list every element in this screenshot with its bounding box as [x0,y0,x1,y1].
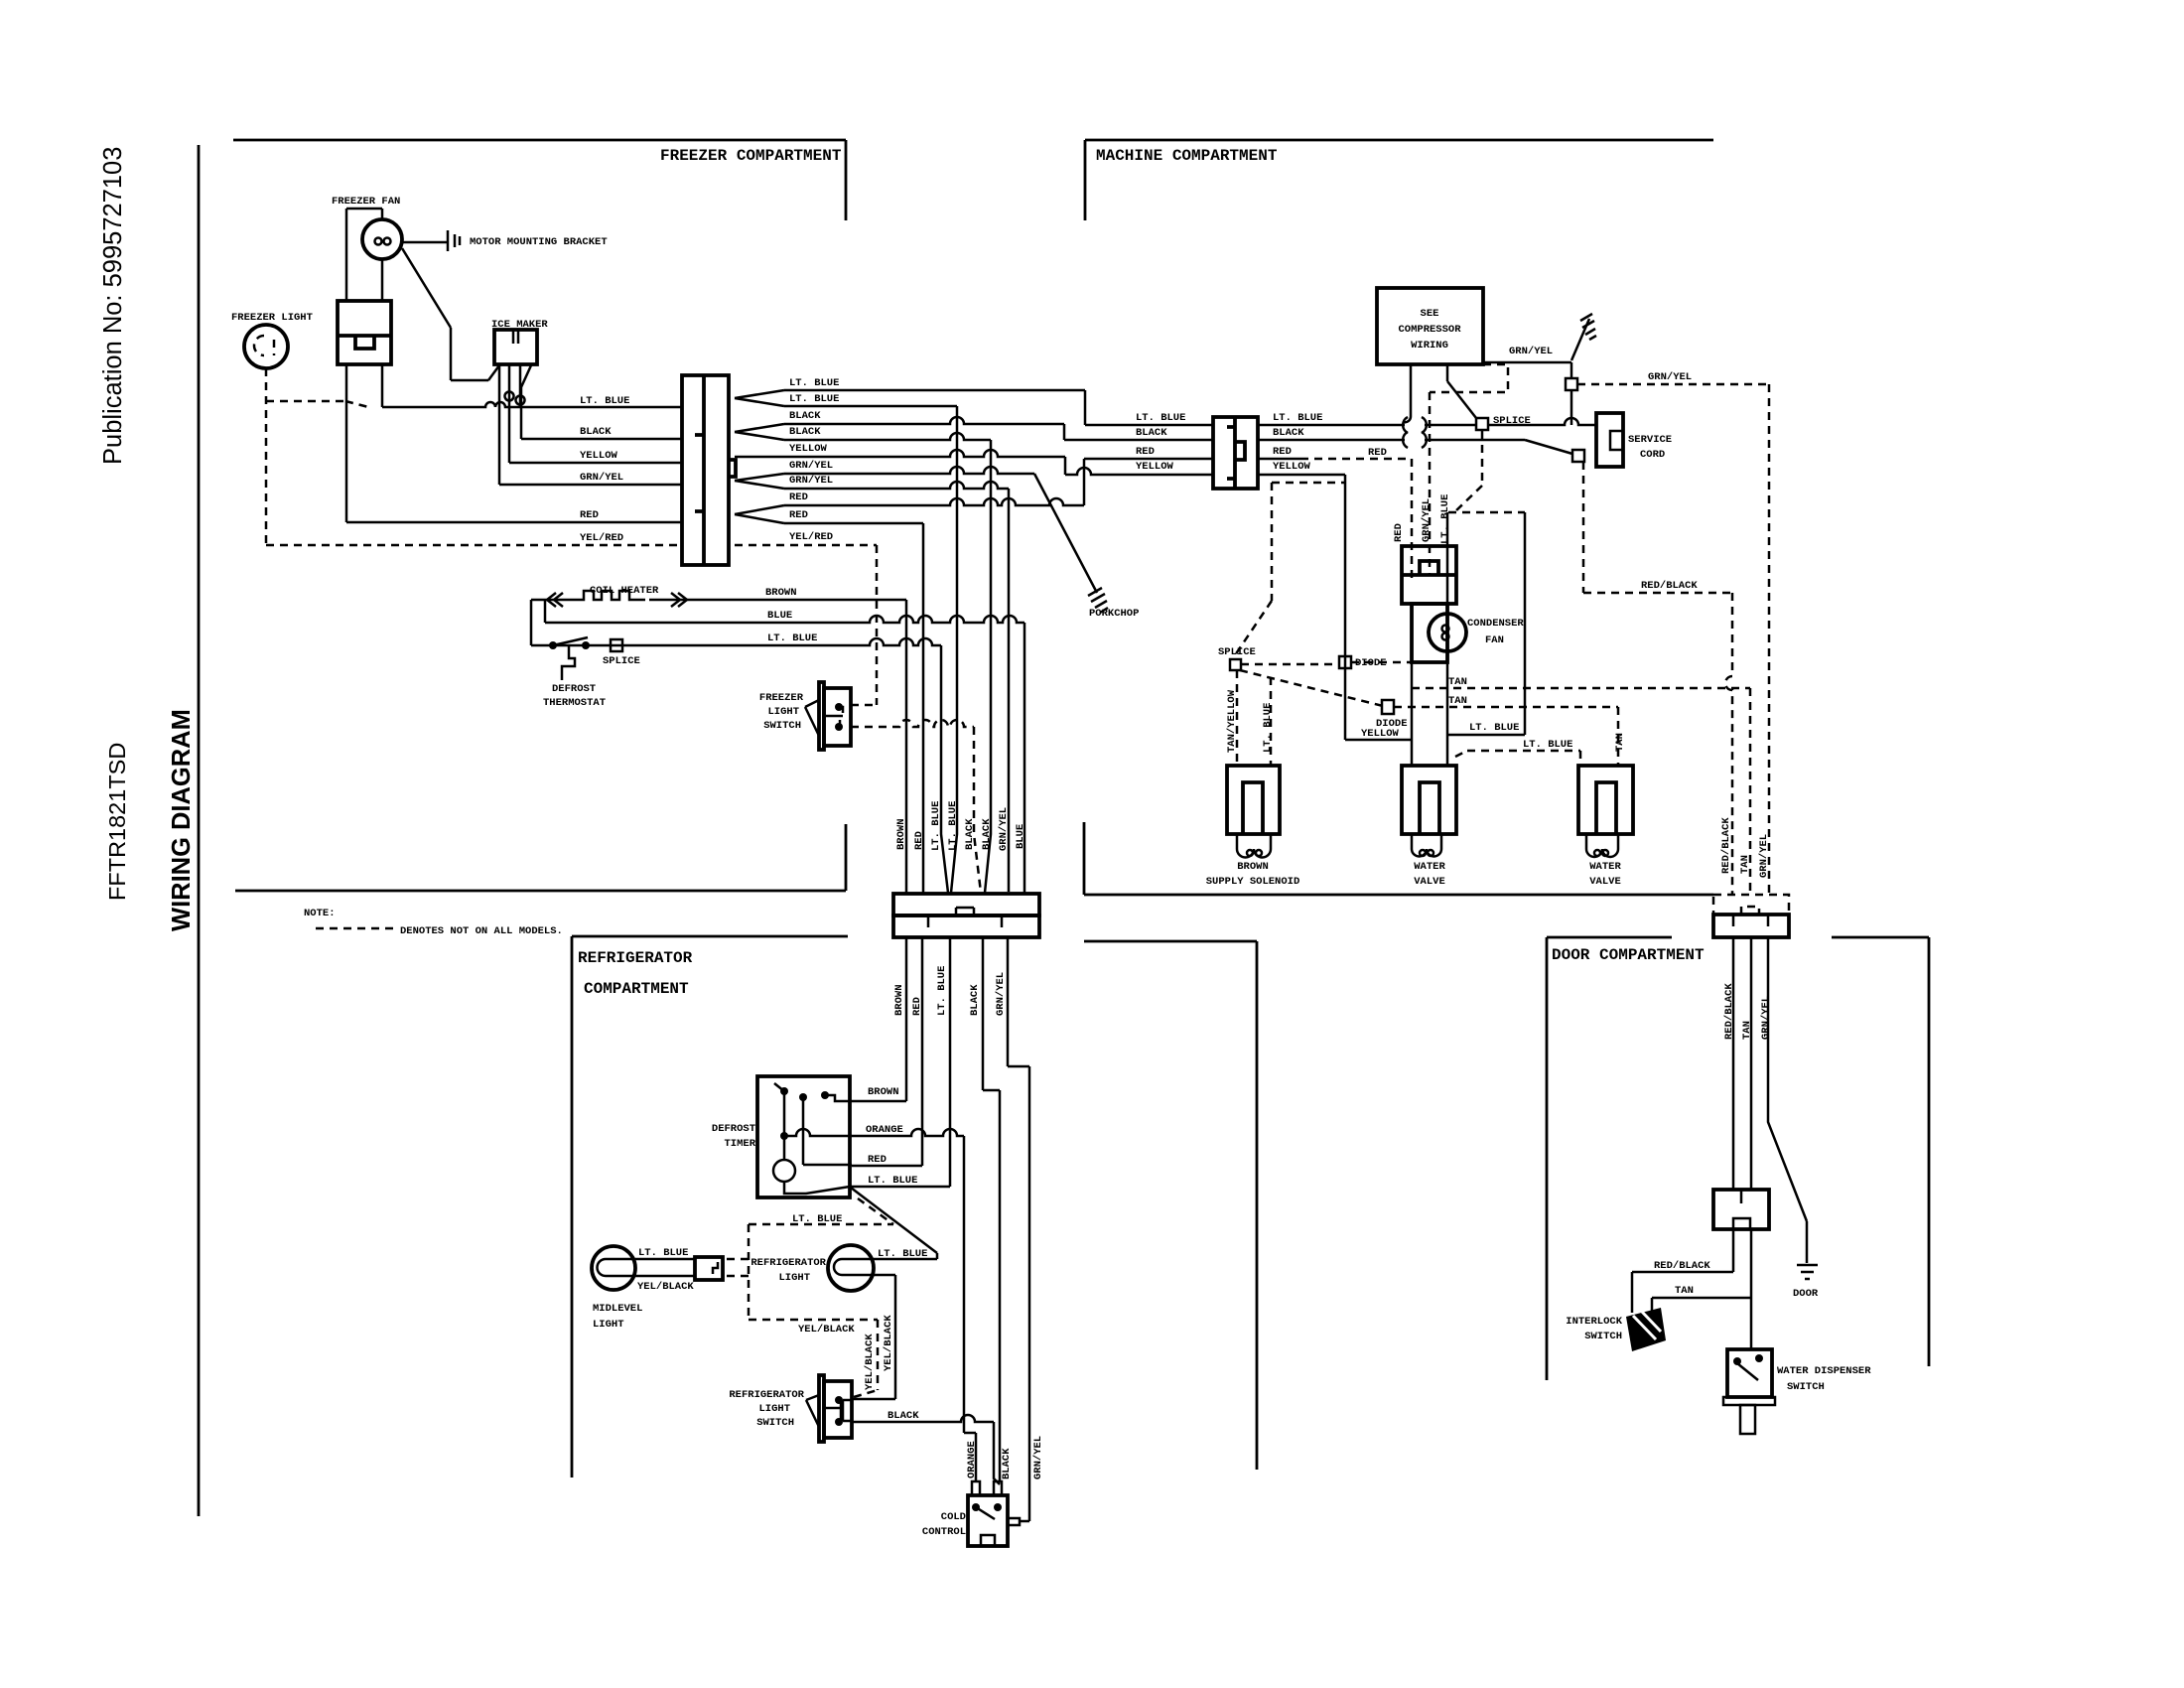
svg-text:YELLOW: YELLOW [1136,461,1174,473]
svg-text:VALVE: VALVE [1414,876,1445,888]
svg-text:PORKCHOP: PORKCHOP [1089,608,1139,620]
svg-text:WATER DISPENSER: WATER DISPENSER [1777,1365,1871,1377]
svg-text:NOTE:: NOTE: [304,908,336,919]
svg-text:RED/BLACK: RED/BLACK [1641,580,1698,592]
svg-text:FREEZER: FREEZER [759,692,804,704]
svg-text:MACHINE COMPARTMENT: MACHINE COMPARTMENT [1096,147,1278,165]
svg-text:BLACK: BLACK [1136,427,1167,439]
svg-text:LIGHT: LIGHT [778,1272,810,1284]
svg-text:DIODE: DIODE [1376,718,1408,730]
svg-text:SPLICE: SPLICE [1218,646,1256,658]
svg-text:BLACK: BLACK [964,818,976,850]
svg-text:LT. BLUE: LT. BLUE [1469,722,1519,734]
svg-text:COLD: COLD [941,1511,966,1523]
svg-text:FREEZER FAN: FREEZER FAN [332,196,400,208]
svg-text:RED: RED [1368,447,1387,459]
svg-text:RED/BLACK: RED/BLACK [1723,983,1735,1040]
svg-text:WATER: WATER [1589,861,1621,873]
svg-text:LT. BLUE: LT. BLUE [767,633,817,644]
svg-text:SWITCH: SWITCH [1584,1331,1622,1342]
svg-text:BLACK: BLACK [580,426,612,438]
svg-text:TAN: TAN [1614,733,1626,752]
svg-text:LT. BLUE: LT. BLUE [868,1175,917,1187]
svg-text:TIMER: TIMER [724,1138,755,1150]
svg-text:TAN: TAN [1448,695,1467,707]
svg-text:BROWN: BROWN [765,587,797,599]
svg-text:TAN: TAN [1739,855,1751,874]
svg-text:DEFROST: DEFROST [552,683,596,695]
svg-text:Publication No: 5995727103: Publication No: 5995727103 [99,147,127,465]
svg-text:CORD: CORD [1640,449,1665,461]
svg-text:RED: RED [1273,446,1292,458]
svg-text:BLACK: BLACK [887,1410,919,1422]
svg-text:GRN/YEL: GRN/YEL [1760,996,1772,1040]
svg-text:BLACK: BLACK [969,984,981,1016]
svg-text:GRN/YEL: GRN/YEL [789,460,833,472]
svg-text:SPLICE: SPLICE [603,655,640,667]
svg-text:YEL/BLACK: YEL/BLACK [864,1334,876,1390]
svg-text:YELLOW: YELLOW [1273,461,1311,473]
svg-text:SWITCH: SWITCH [1787,1381,1825,1393]
svg-text:LT. BLUE: LT. BLUE [936,966,948,1016]
svg-text:BLACK: BLACK [789,426,821,438]
svg-text:BLACK: BLACK [789,410,821,422]
svg-text:RED: RED [789,492,808,503]
svg-text:GRN/YEL: GRN/YEL [995,972,1007,1016]
svg-text:BLUE: BLUE [1015,824,1026,849]
svg-text:TAN: TAN [1448,676,1467,688]
svg-text:ORANGE: ORANGE [966,1441,978,1478]
svg-text:YELLOW: YELLOW [789,443,828,455]
svg-text:LT. BLUE: LT. BLUE [580,395,629,407]
svg-text:RED: RED [911,997,923,1016]
svg-text:WIRING: WIRING [1411,340,1448,352]
svg-text:LT. BLUE: LT. BLUE [1262,703,1274,753]
svg-text:DEFROST: DEFROST [712,1123,755,1135]
svg-text:SERVICE: SERVICE [1628,434,1672,446]
svg-text:WIRING DIAGRAM: WIRING DIAGRAM [168,709,196,931]
svg-text:FREEZER LIGHT: FREEZER LIGHT [231,312,313,324]
svg-text:YEL/RED: YEL/RED [580,532,623,544]
svg-text:BLUE: BLUE [767,610,792,622]
svg-text:LT. BLUE: LT. BLUE [1136,412,1185,424]
svg-text:BLACK: BLACK [1273,427,1304,439]
svg-text:RED/BLACK: RED/BLACK [1654,1260,1710,1272]
svg-text:REFRIGERATOR: REFRIGERATOR [578,949,693,967]
svg-text:RED: RED [913,831,925,850]
svg-text:LIGHT: LIGHT [767,706,799,718]
svg-text:REFRIGERATOR: REFRIGERATOR [751,1257,826,1269]
svg-text:COMPARTMENT: COMPARTMENT [584,980,689,998]
svg-text:RED: RED [1136,446,1155,458]
svg-text:MOTOR MOUNTING BRACKET: MOTOR MOUNTING BRACKET [470,236,608,248]
svg-text:FREEZER COMPARTMENT: FREEZER COMPARTMENT [660,147,842,165]
svg-text:RED: RED [868,1154,887,1166]
svg-text:YEL/BLACK: YEL/BLACK [883,1315,894,1371]
svg-text:TAN/YELLOW: TAN/YELLOW [1226,689,1238,753]
svg-text:SWITCH: SWITCH [763,720,801,732]
svg-text:REFRIGERATOR: REFRIGERATOR [729,1389,804,1401]
svg-text:GRN/YEL: GRN/YEL [580,472,623,484]
svg-text:BROWN: BROWN [1237,861,1269,873]
svg-text:THERMOSTAT: THERMOSTAT [543,697,606,709]
svg-text:TAN: TAN [1675,1285,1694,1297]
svg-text:DENOTES NOT ON ALL MODELS.: DENOTES NOT ON ALL MODELS. [400,925,563,937]
svg-text:SEE: SEE [1421,308,1439,320]
svg-text:SWITCH: SWITCH [756,1417,794,1429]
svg-text:DIODE: DIODE [1355,657,1387,669]
svg-text:SUPPLY SOLENOID: SUPPLY SOLENOID [1206,876,1300,888]
svg-text:LT. BLUE: LT. BLUE [1273,412,1322,424]
svg-text:RED: RED [580,509,599,521]
svg-text:LT. BLUE: LT. BLUE [930,801,942,851]
svg-text:WATER: WATER [1414,861,1445,873]
svg-text:BROWN: BROWN [895,818,907,850]
svg-text:LT. BLUE: LT. BLUE [792,1213,842,1225]
svg-text:GRN/YEL: GRN/YEL [998,807,1010,851]
svg-text:CONDENSER: CONDENSER [1467,618,1524,630]
svg-text:FAN: FAN [1485,634,1504,646]
svg-text:YEL/BLACK: YEL/BLACK [798,1324,855,1336]
svg-text:INTERLOCK: INTERLOCK [1566,1316,1622,1328]
svg-text:DOOR COMPARTMENT: DOOR COMPARTMENT [1552,946,1705,964]
svg-text:BLACK: BLACK [981,818,993,850]
svg-text:DOOR: DOOR [1793,1288,1819,1300]
svg-text:YEL/BLACK: YEL/BLACK [637,1281,694,1293]
svg-text:LIGHT: LIGHT [593,1319,624,1331]
svg-text:TAN: TAN [1741,1021,1753,1040]
svg-text:ORANGE: ORANGE [866,1124,903,1136]
svg-text:GRN/YEL: GRN/YEL [789,475,833,487]
svg-text:RED/BLACK: RED/BLACK [1720,817,1732,874]
svg-text:RED: RED [789,509,808,521]
svg-text:GRN/YEL: GRN/YEL [1421,498,1433,542]
svg-text:YELLOW: YELLOW [580,450,618,462]
svg-text:GRN/YEL: GRN/YEL [1758,834,1770,878]
svg-text:LT. BLUE: LT. BLUE [878,1248,927,1260]
svg-text:GRN/YEL: GRN/YEL [1648,371,1692,383]
svg-text:BLACK: BLACK [1001,1448,1013,1479]
svg-text:LT. BLUE: LT. BLUE [789,377,839,389]
svg-text:RED: RED [1393,523,1405,542]
svg-text:MIDLEVEL: MIDLEVEL [593,1303,642,1315]
svg-text:SPLICE: SPLICE [1493,415,1531,427]
svg-text:LIGHT: LIGHT [758,1403,790,1415]
svg-text:CONTROL: CONTROL [922,1526,966,1538]
svg-text:YEL/RED: YEL/RED [789,531,833,543]
svg-text:GRN/YEL: GRN/YEL [1509,346,1553,357]
svg-text:BROWN: BROWN [868,1086,899,1098]
svg-text:LT. BLUE: LT. BLUE [1439,494,1451,544]
svg-text:LT. BLUE: LT. BLUE [947,801,959,851]
svg-text:FFTR1821TSD: FFTR1821TSD [104,743,130,901]
svg-text:VALVE: VALVE [1589,876,1621,888]
svg-text:LT. BLUE: LT. BLUE [638,1247,688,1259]
svg-text:BROWN: BROWN [893,984,905,1016]
svg-text:GRN/YEL: GRN/YEL [1032,1436,1044,1479]
svg-text:COMPRESSOR: COMPRESSOR [1398,324,1461,336]
svg-text:LT. BLUE: LT. BLUE [1523,739,1572,751]
svg-text:LT. BLUE: LT. BLUE [789,393,839,405]
